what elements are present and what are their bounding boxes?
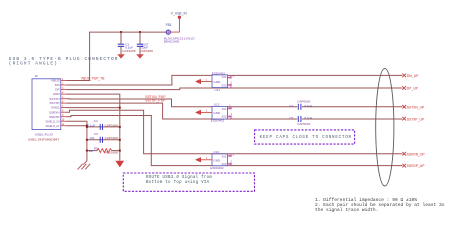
wire SSRXN from pin 8 to long line — [67, 110, 403, 153]
wire SSTXP after C5 — [302, 118, 402, 120]
resistor R5 zigzag — [97, 149, 112, 153]
wire SSRXP from pin 9 to long line — [67, 116, 403, 166]
svg-text:0.1uF: 0.1uF — [304, 104, 312, 108]
svg-text:GND: GND — [213, 111, 221, 115]
svg-text:ROUTE USB3.0 Signal from: ROUTE USB3.0 Signal from — [146, 175, 212, 180]
svg-text:C2: C2 — [289, 104, 293, 108]
note box KEEP CAPS CLOSE TO CONNECTOR — [255, 130, 355, 144]
svg-text:GND: GND — [53, 92, 61, 96]
junction at C127 tap — [139, 31, 141, 33]
svg-text:(RIGHT ANGLE): (RIGHT ANGLE) — [9, 62, 58, 67]
svg-text:SSTXP_PUP: SSTXP_PUP — [145, 98, 166, 102]
svg-text:DP_UP: DP_UP — [407, 87, 419, 91]
ground arrow of U13 — [195, 158, 201, 163]
svg-text:VBUS: VBUS — [51, 79, 59, 83]
wire SSTXP from pin 6 to coupling cap C5 — [67, 103, 298, 119]
wire U13 GND pin 1 — [201, 159, 212, 161]
svg-text:VBUS_PUP_TB: VBUS_PUP_TB — [81, 76, 105, 80]
svg-text:ESD0402: ESD0402 — [211, 118, 225, 122]
svg-text:IO2: IO2 — [222, 83, 227, 87]
ground symbol below C127 — [136, 54, 144, 58]
svg-text:IO1: IO1 — [222, 107, 227, 111]
svg-text:U12: U12 — [214, 103, 220, 107]
capacitor C2 plates on SSTXN — [298, 104, 301, 110]
wire bead FB1 to V_USB_IN power symbol — [170, 19, 179, 32]
svg-text:DP: DP — [55, 88, 59, 92]
wire C127 to ground — [139, 47, 141, 54]
wire U13 IO2 stub — [228, 163, 231, 165]
svg-text:U13: U13 — [213, 150, 219, 154]
ferrite bead FB1 symbol — [166, 30, 170, 34]
svg-text:SSRXN_UP: SSRXN_UP — [407, 152, 426, 156]
svg-text:CAP1005: CAP1005 — [122, 49, 136, 53]
connector J2 pin stubs — [61, 81, 67, 126]
svg-text:U11: U11 — [215, 88, 221, 92]
capacitor C5 plates on SSTXP — [298, 116, 301, 122]
capacitor C127 plates — [137, 44, 143, 46]
junction C4 left — [86, 126, 88, 128]
svg-text:ESD0402: ESD0402 — [210, 166, 224, 170]
wire C127 drop — [139, 32, 141, 44]
off-page X SSRXN — [402, 152, 406, 156]
capacitor C3 plates — [100, 137, 102, 143]
ground symbol GND triangle at rail bottom — [115, 161, 124, 168]
svg-text:IO2: IO2 — [222, 115, 227, 119]
connector J2 pin names — [45, 79, 60, 128]
chassis ground symbol at shield rail bottom — [78, 161, 91, 169]
wire GND pin 4 to ground rail — [67, 94, 120, 161]
wire U11 IO1 stub — [228, 77, 231, 79]
wire SHIELD_C4 pin 10 to shield rail — [67, 121, 87, 161]
pad U11 IO1 — [229, 75, 235, 78]
svg-text:SSTXN_UP: SSTXN_UP — [407, 105, 425, 109]
wire C1 drop — [120, 32, 122, 44]
connector J2 pin numbers — [62, 78, 65, 126]
svg-text:SSRXP: SSRXP — [49, 115, 60, 119]
junction SHIELD_C1 on rail — [86, 125, 88, 127]
svg-text:CAP1608: CAP1608 — [105, 136, 119, 140]
junction R5 right — [119, 150, 121, 152]
svg-text:SHIELD_C4: SHIELD_C4 — [45, 119, 60, 123]
svg-text:CAP1608: CAP1608 — [105, 123, 119, 127]
svg-text:IO2: IO2 — [222, 162, 227, 166]
svg-text:SSTXP: SSTXP — [49, 101, 59, 105]
wire shield bank row R5 — [87, 150, 97, 152]
pad U13 IO1 — [229, 154, 235, 157]
svg-text:CAP0603: CAP0603 — [297, 100, 311, 104]
wire U12 GND pin 1 — [201, 111, 212, 113]
svg-text:the signal trace width.: the signal trace width. — [315, 207, 378, 213]
capacitor C1 plates — [118, 44, 124, 46]
junction C3 right — [119, 139, 121, 141]
svg-text:R5: R5 — [94, 146, 98, 150]
off-page X DP — [402, 86, 406, 90]
wire U13 IO1 stub — [228, 155, 231, 157]
wire U12 IO1 stub — [228, 107, 231, 109]
note box ROUTE USB3.0 signal — [123, 173, 254, 191]
svg-text:DM_UP: DM_UP — [407, 74, 419, 78]
svg-text:IO1: IO1 — [222, 75, 227, 79]
svg-text:BEAD1005: BEAD1005 — [164, 40, 180, 44]
ground symbol below C1 — [117, 54, 125, 58]
wire SHIELD_C1 pin 11 to shield rail — [67, 125, 87, 127]
pad U12 IO2 — [229, 113, 233, 119]
svg-text:KEEP CAPS CLOSE TO CONNECTOR: KEEP CAPS CLOSE TO CONNECTOR — [260, 136, 352, 140]
wire GND1 pin 7 to ground rail — [67, 107, 120, 109]
svg-text:Bottom to Top using VIA: Bottom to Top using VIA — [146, 180, 210, 185]
capacitor C4 plates — [100, 124, 102, 130]
svg-text:1nF: 1nF — [89, 136, 94, 140]
cable ellipse — [376, 68, 394, 186]
junction C3 left — [86, 139, 88, 141]
junction R5 left — [86, 150, 88, 152]
wire U11 IO2 stub — [228, 84, 231, 86]
ESD diode U11 body — [212, 75, 228, 88]
svg-text:J2: J2 — [35, 74, 39, 78]
power symbol V_USB_IN — [178, 16, 181, 19]
svg-text:GND: GND — [213, 80, 221, 84]
svg-text:FB1: FB1 — [166, 23, 172, 27]
ESD diode U12 body — [212, 106, 228, 119]
junction GND1 on rail — [119, 107, 121, 109]
junction C4 right — [119, 126, 121, 128]
pad U11 IO2 — [229, 81, 233, 88]
svg-text:DM: DM — [55, 83, 60, 87]
svg-text:GND1: GND1 — [51, 106, 60, 110]
wire shield bank row C4 — [87, 126, 120, 128]
svg-text:CAP1608: CAP1608 — [140, 49, 154, 53]
svg-text:IO1: IO1 — [222, 154, 227, 158]
svg-text:USB3_PLUG: USB3_PLUG — [35, 132, 54, 136]
off-page X SSRXP — [402, 164, 406, 168]
svg-text:RES1608: RES1608 — [105, 150, 119, 154]
off-page X SSTXP — [402, 117, 406, 121]
wire DP from pin 3 to long line — [67, 88, 403, 90]
svg-text:SSTXP_UP: SSTXP_UP — [407, 118, 425, 122]
wire VBUS from connector pin 1 up to bead FB1 — [67, 32, 167, 80]
pad U13 IO2 — [229, 160, 233, 165]
wire SSTXN after C2 — [302, 106, 402, 108]
svg-text:SSRXN: SSRXN — [49, 110, 60, 114]
svg-text:1M: 1M — [89, 149, 94, 153]
connector J2 body — [32, 79, 61, 130]
ESD diode U13 body — [212, 154, 228, 166]
ground arrow of U12 — [195, 110, 201, 115]
wire U11 GND pin 1 — [201, 81, 212, 83]
svg-text:USB3_S43F06WDB4T: USB3_S43F06WDB4T — [28, 138, 60, 142]
ground arrow of U11 — [195, 79, 201, 84]
svg-text:C5: C5 — [289, 116, 293, 120]
wire resistor R5 to rail — [112, 150, 120, 152]
off-page X DM — [402, 74, 406, 78]
pad U12 IO1 — [229, 104, 232, 109]
wire SSTXN from pin 5 to coupling cap C2 — [67, 99, 298, 107]
junction at C1 tap — [120, 31, 122, 33]
svg-text:CAP0603: CAP0603 — [297, 122, 311, 126]
wire C1 to ground — [120, 47, 122, 54]
svg-text:0.1uF: 0.1uF — [304, 116, 312, 120]
svg-text:GND: GND — [213, 159, 221, 163]
svg-text:SSRXP_UP: SSRXP_UP — [407, 164, 425, 168]
off-page X SSTXN — [402, 105, 406, 109]
svg-text:SHIELD_C1: SHIELD_C1 — [45, 124, 60, 128]
svg-text:0.1uF: 0.1uF — [87, 123, 95, 127]
svg-text:V_USB_IN: V_USB_IN — [171, 12, 188, 16]
wire U12 IO2 stub — [228, 115, 231, 117]
wire DM from pin 2 to long line — [67, 75, 403, 85]
wire shield bank row C3 — [87, 139, 120, 141]
